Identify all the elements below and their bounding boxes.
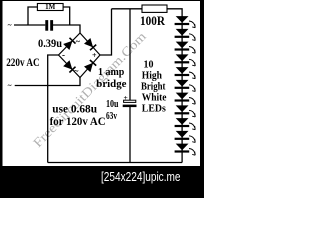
svg-text:for 120v AC: for 120v AC (50, 114, 106, 128)
wire 10u cap branch top (129, 9, 131, 100)
bridge rectifier diamond (59, 33, 101, 78)
svg-text:Bright: Bright (141, 82, 166, 93)
diode D3 bridge bottom-left (63, 60, 75, 72)
svg-text:White: White (142, 93, 167, 104)
svg-text:-: - (62, 50, 65, 60)
svg-text:1M: 1M (45, 3, 56, 11)
svg-text:[254x224]upic.me: [254x224]upic.me (101, 169, 181, 184)
svg-text:LEDs: LEDs (142, 103, 166, 114)
wire top rail to 100R (112, 8, 143, 10)
LED 11 (175, 144, 196, 156)
svg-text:+: + (124, 93, 128, 102)
LED 6 (175, 80, 196, 92)
LED 1 (175, 16, 196, 28)
LED 2 (175, 29, 196, 41)
svg-text:10: 10 (144, 60, 154, 71)
wire 10u cap branch bottom (129, 107, 131, 163)
LED 4 (175, 54, 196, 66)
capacitor C2 10u electrolytic (123, 93, 137, 107)
wire LED string vertical (181, 16, 183, 163)
bottom watermark bar (0, 166, 204, 198)
wire AC1 line left (14, 24, 45, 26)
svg-text:1 amp: 1 amp (98, 67, 124, 78)
LED 9 (175, 118, 196, 130)
border right (200, 0, 204, 170)
wire bridge - output left branch down (48, 55, 59, 163)
LED 8 (175, 105, 196, 117)
LED 5 (175, 67, 196, 79)
svg-text:220v AC: 220v AC (6, 55, 40, 69)
diode D4 bridge bottom-right (84, 60, 96, 72)
svg-text:+: + (92, 51, 97, 60)
LED string D5-D15 (175, 16, 196, 155)
LED 7 (175, 93, 196, 105)
wire bridge + output to top rail (100, 9, 112, 55)
wire bottom rail (48, 162, 182, 164)
svg-text:~: ~ (8, 21, 12, 30)
capacitor C1 0.39u plates (45, 20, 48, 31)
svg-text:High: High (142, 71, 163, 82)
svg-text:63v: 63v (106, 111, 118, 122)
diode D1 bridge top-left (63, 38, 75, 50)
wire AC1 line right to bridge top (53, 25, 80, 33)
wire AC2 line to bridge bottom (15, 78, 80, 86)
svg-text:0.39u: 0.39u (38, 36, 62, 50)
svg-text:10u: 10u (106, 99, 119, 110)
border top (0, 0, 204, 1)
resistor R2 100R box (142, 5, 167, 12)
wire 100R to LED string top (167, 9, 182, 17)
svg-text:~: ~ (8, 81, 12, 90)
svg-text:bridge: bridge (96, 79, 127, 90)
diode D2 bridge top-right (84, 38, 96, 50)
svg-text:100R: 100R (140, 14, 166, 28)
LED 10 (175, 131, 196, 143)
wire 1M left lead (28, 7, 37, 25)
border left (0, 0, 3, 170)
LED 3 (175, 42, 196, 54)
resistor R1 1M box (37, 4, 63, 11)
wire 1M right lead (63, 7, 70, 25)
